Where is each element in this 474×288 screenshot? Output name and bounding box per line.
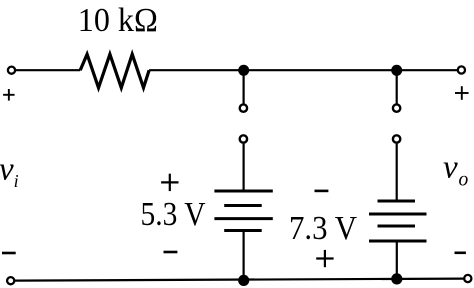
svg-text:10 kΩ: 10 kΩ (78, 2, 158, 39)
svg-text:v: v (443, 150, 458, 186)
svg-text:o: o (459, 169, 469, 190)
svg-text:5.3 V: 5.3 V (141, 196, 206, 233)
svg-text:7.3 V: 7.3 V (289, 210, 357, 247)
svg-text:i: i (14, 171, 19, 191)
svg-text:v: v (0, 152, 14, 188)
